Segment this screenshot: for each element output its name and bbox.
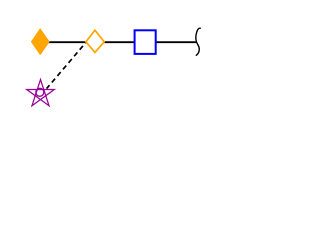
reducing-end squiggle [196,28,200,55]
monosaccharide: open orange diamond [86,30,104,52]
wire: dashed bond from open diamond to star [47,42,87,89]
monosaccharide: open blue square [135,30,156,54]
star center circle [36,88,44,96]
monosaccharide: filled orange diamond [32,29,49,54]
monosaccharide: purple pentagram star [27,80,55,106]
wire: main horizontal backbone line [40,41,197,43]
